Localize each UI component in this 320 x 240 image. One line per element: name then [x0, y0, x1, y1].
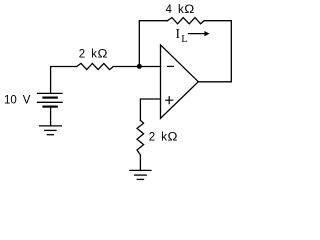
- op-amp plus sign: [166, 97, 173, 104]
- svg-text:2 kΩ: 2 kΩ: [149, 131, 178, 143]
- svg-text:L: L: [181, 34, 187, 45]
- resistor R1 2 kOhm input zigzag: [77, 63, 114, 69]
- op-amp U1 triangle: [161, 45, 199, 119]
- wire noninverting input: [140, 99, 160, 121]
- ground under battery: [40, 126, 62, 135]
- resistor R3 2 kOhm ground leg zigzag: [137, 120, 144, 155]
- node junction dot: [137, 64, 142, 69]
- label IL current: [176, 26, 188, 45]
- wire feedback left vertical: [139, 21, 167, 67]
- current arrow IL: [189, 31, 210, 36]
- op-amp minus sign: [168, 65, 174, 67]
- svg-text:10 V: 10 V: [4, 95, 31, 107]
- svg-text:I: I: [176, 26, 181, 41]
- resistor R2 4 kOhm feedback zigzag: [167, 18, 204, 24]
- wire battery top to resistor R1: [51, 67, 77, 94]
- svg-text:4 kΩ: 4 kΩ: [166, 4, 195, 16]
- ground under R3: [130, 170, 151, 179]
- voltage source V1 battery plates: [38, 93, 63, 126]
- wire R3 to ground: [139, 155, 141, 171]
- svg-text:2 kΩ: 2 kΩ: [79, 48, 108, 60]
- wire R1 to op-amp inverting input: [113, 66, 160, 68]
- wire feedback right vertical to output: [198, 21, 231, 82]
